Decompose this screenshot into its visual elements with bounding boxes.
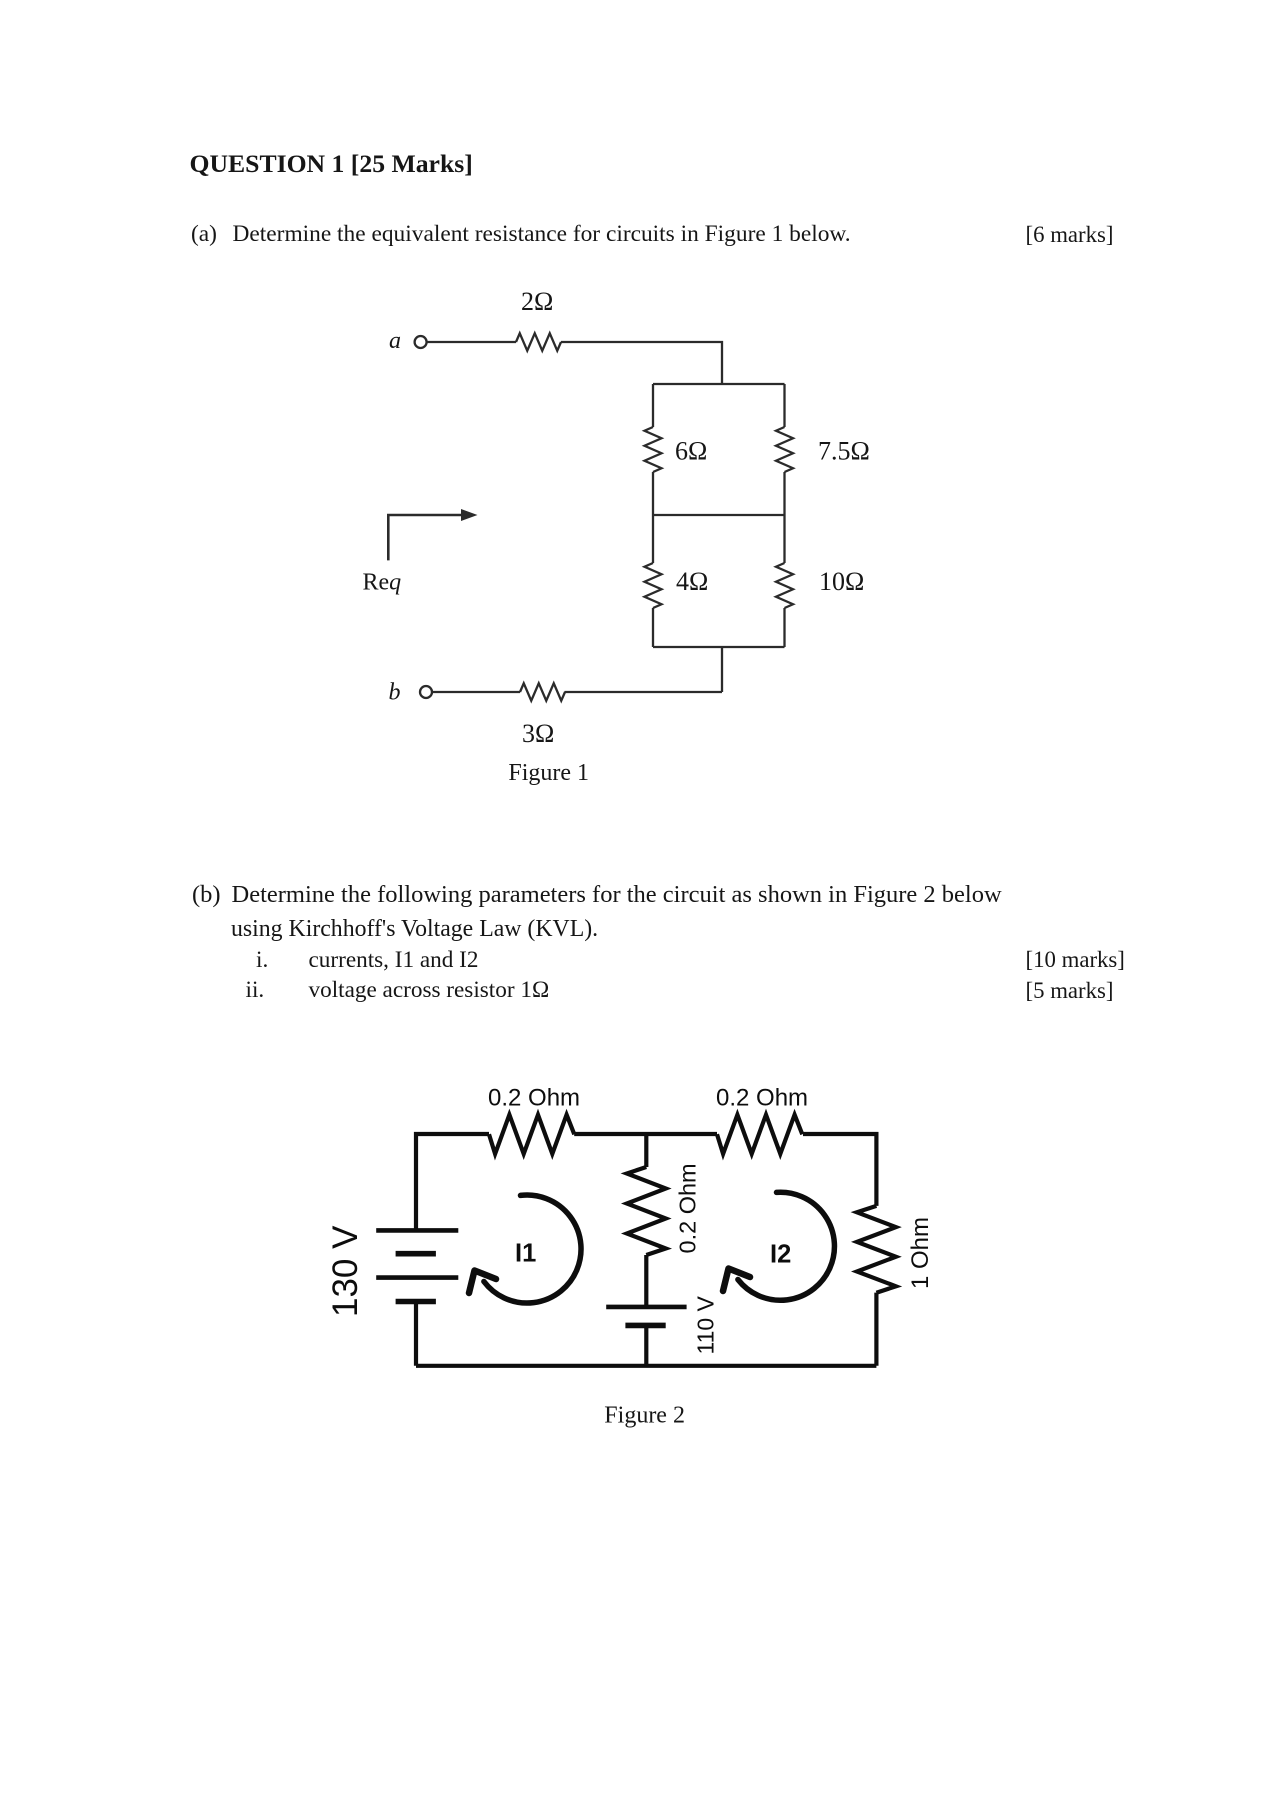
svg-text:0.2 Ohm: 0.2 Ohm xyxy=(716,1085,808,1112)
wire mid to 10ohm xyxy=(783,515,785,563)
resistor 2ohm xyxy=(516,333,561,350)
svg-text:b: b xyxy=(389,680,401,706)
label V1 130 V xyxy=(326,1225,365,1317)
label 10ohm xyxy=(819,567,864,596)
label V2 110 V xyxy=(693,1295,719,1354)
svg-text:2Ω: 2Ω xyxy=(521,287,553,316)
svg-text:7.5Ω: 7.5Ω xyxy=(818,437,870,466)
heading xyxy=(190,151,473,177)
label 2ohm xyxy=(521,287,553,316)
svg-text:I1: I1 xyxy=(515,1240,536,1268)
resistor 4ohm xyxy=(645,563,662,608)
wire R1 to middle node xyxy=(574,1132,717,1136)
svg-text:Req: Req xyxy=(363,569,402,595)
label 4ohm xyxy=(676,567,708,596)
resistor 3ohm xyxy=(520,683,565,700)
wire 3ohm to bottom node xyxy=(565,691,723,693)
label 6ohm xyxy=(675,437,707,466)
list item ii xyxy=(246,979,265,1002)
wire battery V2 to bottom wire xyxy=(644,1325,648,1365)
wire R3 to battery V2 xyxy=(644,1255,648,1307)
wire R2 to top-right corner down xyxy=(803,1134,876,1206)
svg-text:130 V: 130 V xyxy=(326,1225,365,1317)
wire 6ohm to mid node xyxy=(652,472,654,515)
terminal b xyxy=(420,686,432,698)
svg-text:1 Ohm: 1 Ohm xyxy=(907,1217,934,1289)
battery V1 plate short bottom xyxy=(396,1299,436,1305)
label I1 xyxy=(515,1240,536,1268)
svg-text:110 V: 110 V xyxy=(693,1295,719,1354)
battery V2 110V plate long xyxy=(606,1305,686,1310)
svg-text:10Ω: 10Ω xyxy=(819,567,864,596)
label R3 0.2 Ohm xyxy=(675,1163,701,1253)
svg-text:0.2 Ohm: 0.2 Ohm xyxy=(675,1163,701,1253)
mesh current I1 arrow xyxy=(469,1195,581,1303)
wire 10ohm to bottom node xyxy=(783,608,785,647)
resistor R3 0.2 Ohm vertical xyxy=(627,1167,666,1255)
wire a to resistor 2ohm xyxy=(427,341,516,343)
mesh current I2 arrow xyxy=(723,1192,834,1300)
paragraph (a) xyxy=(191,223,217,246)
Req direction arrow xyxy=(388,509,477,560)
wire mid to 4ohm xyxy=(652,515,654,563)
node a label xyxy=(389,328,401,354)
svg-text:Figure 2: Figure 2 xyxy=(604,1403,685,1429)
wire battery V1 to bottom wire xyxy=(414,1302,418,1366)
wire top node horizontal xyxy=(653,383,785,385)
label R1 0.2 Ohm xyxy=(488,1085,580,1112)
svg-text:I2: I2 xyxy=(770,1241,791,1269)
wire 7.5ohm to mid node xyxy=(783,472,785,515)
wire mid node horizontal xyxy=(653,514,785,516)
resistor R1 0.2 Ohm xyxy=(489,1115,574,1154)
wire top to 7.5ohm xyxy=(783,384,785,427)
label Req xyxy=(363,569,402,595)
svg-text:3Ω: 3Ω xyxy=(522,719,554,748)
resistor 7.5ohm xyxy=(776,427,793,472)
caption Figure 1 xyxy=(508,760,589,786)
resistor R4 1 Ohm vertical xyxy=(857,1206,896,1293)
svg-text:Figure 1: Figure 1 xyxy=(508,760,589,786)
paragraph (b) xyxy=(192,883,221,908)
label I2 xyxy=(770,1241,791,1269)
wire 4ohm to bottom node xyxy=(652,608,654,647)
label R4 1 Ohm xyxy=(907,1217,934,1289)
node b label xyxy=(389,680,401,706)
battery V1 130V plate long top xyxy=(376,1228,458,1233)
wire top to 6ohm xyxy=(652,384,654,427)
resistor R2 0.2 Ohm xyxy=(717,1115,802,1154)
label 3ohm xyxy=(522,719,554,748)
wire b to resistor 3ohm xyxy=(432,691,520,693)
wire top middle node down to R3 xyxy=(644,1134,648,1167)
wire R4 to bottom-right corner xyxy=(874,1293,878,1366)
resistor 6ohm xyxy=(645,427,662,472)
wire top-left corner to R1 xyxy=(416,1134,489,1230)
wire bottom node down xyxy=(721,647,723,692)
battery V2 plate short xyxy=(625,1323,665,1329)
wire resistor 2ohm to top node xyxy=(561,342,722,384)
list item i xyxy=(256,949,268,972)
battery V1 plate short xyxy=(396,1251,436,1257)
label R2 0.2 Ohm xyxy=(716,1085,808,1112)
resistor 10ohm xyxy=(776,563,793,608)
svg-text:6Ω: 6Ω xyxy=(675,437,707,466)
label 7.5ohm xyxy=(818,437,870,466)
wire bottom node horizontal xyxy=(653,646,785,648)
wire bottom xyxy=(416,1364,876,1368)
svg-text:a: a xyxy=(389,328,401,354)
svg-text:4Ω: 4Ω xyxy=(676,567,708,596)
svg-text:0.2 Ohm: 0.2 Ohm xyxy=(488,1085,580,1112)
caption Figure 2 xyxy=(604,1403,685,1429)
battery V1 plate long xyxy=(376,1275,458,1280)
terminal a xyxy=(415,336,427,348)
